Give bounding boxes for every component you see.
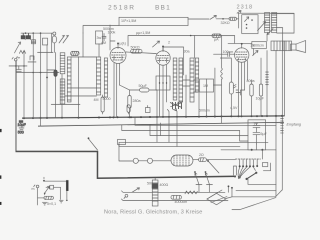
zigzag contact	[19, 50, 25, 53]
svg-text:100k: 100k	[108, 30, 116, 34]
junction dots input	[15, 32, 56, 73]
terminal dot and tick	[43, 180, 45, 182]
coil rung wires	[51, 57, 96, 105]
dropper resistor R11 hatched right	[281, 41, 284, 190]
electrolytic cap C8 left	[17, 120, 26, 134]
resistor R13 dark body top	[152, 183, 158, 188]
svg-text:800cm: 800cm	[253, 43, 264, 47]
chassis left border wire	[15, 61, 17, 151]
svg-text:4,5V: 4,5V	[230, 106, 238, 110]
svg-text:500cm: 500cm	[103, 27, 114, 31]
rotary switch fan wires	[238, 167, 250, 178]
antenna jack thick bar	[66, 180, 68, 191]
trimmer box	[43, 38, 48, 45]
wire vertical x47	[46, 45, 48, 118]
rotary wiper arm	[247, 173, 257, 179]
wire vertical x33	[32, 33, 34, 118]
heater wire 2	[173, 109, 177, 147]
svg-text:6µF: 6µF	[260, 132, 267, 136]
capacitor C6 100cm	[214, 52, 235, 57]
capacitor box 800cm	[252, 42, 267, 49]
resistor R13 400ohm hatched body	[152, 178, 158, 206]
wire vertical x24	[23, 52, 25, 118]
ballast tube U1 (Urdox)	[171, 155, 193, 166]
small box right of bank	[262, 163, 267, 167]
switch bank contacts	[240, 160, 254, 166]
svg-text:500cm: 500cm	[199, 109, 210, 113]
node grid top	[237, 13, 239, 28]
output transformer T1 primary	[265, 13, 270, 33]
IF coil stack L7	[179, 58, 183, 102]
svg-text:2518R: 2518R	[108, 4, 136, 11]
grid cap dot V1	[117, 42, 119, 44]
wire vertical x51	[51, 33, 53, 52]
switch arm at transformer	[258, 22, 266, 31]
mains terminal circle	[125, 194, 128, 197]
heater wire 1	[167, 109, 169, 142]
dial lamp wire	[119, 144, 133, 161]
svg-text:BB1: BB1	[155, 4, 171, 11]
small box on bus	[145, 105, 150, 112]
V2 grid cap wire	[163, 47, 184, 75]
coupling wire V1-V2	[126, 52, 156, 54]
resistor R8 on V3 cathode	[250, 80, 253, 116]
bottom left subcircuit wire	[44, 180, 67, 182]
svg-text:µA: µA	[214, 38, 219, 42]
svg-text:30a: 30a	[184, 49, 190, 53]
main ground bus wire A	[22, 116, 285, 119]
left terminal circle	[36, 185, 39, 188]
svg-text:+µµ: +µµ	[252, 121, 258, 125]
scan artifact marks left edge	[0, 129, 2, 205]
svg-text:5×0,1: 5×0,1	[47, 202, 56, 206]
B+ distribution wire 4	[156, 117, 158, 142]
capacitor C2b	[16, 66, 21, 71]
coil L1 hatched	[60, 53, 65, 74]
contact stem extra	[256, 160, 258, 166]
capacitor C5 50uF	[129, 88, 157, 117]
wire vertical x78	[77, 57, 79, 118]
resistor R10 hatched	[266, 51, 269, 117]
svg-text:1M: 1M	[203, 84, 208, 88]
mains end contacts	[228, 187, 232, 197]
svg-text:µ(λ): µ(λ)	[120, 41, 126, 45]
svg-text:Empfang: Empfang	[286, 123, 300, 127]
switch bank contact dots	[239, 165, 255, 167]
svg-text:m: m	[31, 187, 34, 191]
capacitor C4	[102, 33, 106, 41]
svg-text:500: 500	[18, 130, 24, 134]
mains wires	[121, 191, 228, 201]
electrolytic box C9/C10	[248, 120, 266, 150]
resistor R4 thin	[101, 95, 104, 114]
grid cap dot V2	[162, 46, 164, 48]
resistor R9	[259, 58, 262, 116]
switch arm transformer	[267, 29, 273, 35]
capacitor C1 dark	[21, 33, 25, 39]
svg-text:5000: 5000	[103, 97, 111, 101]
svg-text:2k: 2k	[251, 44, 255, 48]
tuning coil stack L2	[60, 79, 65, 104]
capacitor C3 small	[28, 56, 36, 62]
svg-text:400Ω: 400Ω	[159, 183, 168, 187]
bottom right wire to diamond	[226, 167, 276, 199]
resistor R1 capsule with terminal circle	[53, 32, 56, 35]
L wire right of bank	[263, 163, 270, 171]
wire loop right of transformer	[272, 14, 294, 34]
svg-text:2Ω: 2Ω	[199, 153, 204, 157]
B+ distribution wire 3	[150, 124, 248, 135]
switch arrow S3	[210, 15, 229, 19]
IF coil stack L6	[173, 58, 177, 100]
screen box 3w	[96, 31, 103, 44]
resistor R5 280 ohm	[119, 85, 131, 117]
trimmer cap hatched	[32, 40, 36, 44]
svg-text:4000cm: 4000cm	[174, 200, 187, 204]
switch arrow	[45, 186, 50, 193]
top right wire to transformer	[237, 10, 294, 13]
wire stubs caps	[25, 39, 30, 40]
small box top left of power section	[117, 139, 125, 144]
tube V1 triode	[110, 44, 126, 117]
wire from transformer down	[266, 35, 268, 42]
wire between lamps	[138, 160, 171, 162]
grid bias wire y25	[83, 25, 119, 33]
branch wire from 2A junction	[208, 161, 219, 173]
plate wire y35	[128, 35, 235, 46]
node stub	[159, 123, 161, 136]
wire vertical x40	[39, 33, 41, 126]
svg-text:800a: 800a	[247, 79, 255, 83]
svg-text:Nora, Riessl G. Gleichstrom, 3: Nora, Riessl G. Gleichstrom, 3 Kreise	[104, 209, 203, 215]
ground symbol	[42, 193, 47, 205]
inner wire loop	[277, 28, 283, 42]
vertical wires center	[178, 36, 231, 117]
resistor R6 50K capsule	[131, 49, 142, 53]
antenna arrow	[15, 42, 21, 53]
IF coil stack L8	[190, 58, 199, 102]
resistor R2 capsule hatched	[71, 51, 80, 55]
wire from 800cm box down	[253, 49, 255, 56]
svg-text:280a: 280a	[133, 99, 141, 103]
grid wire y18	[188, 18, 209, 20]
band switch blob	[170, 102, 182, 109]
resistor R15 4000cm capsule	[171, 195, 182, 199]
svg-text:4M: 4M	[94, 98, 99, 102]
svg-text:100cm: 100cm	[223, 50, 234, 54]
switch arrow right	[253, 51, 259, 56]
svg-text:10µF: 10µF	[256, 96, 265, 100]
fuse component	[233, 166, 236, 175]
svg-text:2: 2	[168, 41, 170, 45]
wire from return to rail	[261, 150, 263, 159]
tuning coil stack L3	[67, 57, 71, 102]
capacitor C9	[253, 123, 260, 132]
switch arrow in box	[245, 17, 249, 22]
wire left horizontal	[9, 66, 59, 73]
resistor R3 dark capsule	[54, 70, 57, 77]
wire diagonal to chassis step	[88, 139, 97, 150]
svg-text:2318: 2318	[237, 5, 254, 11]
tube V3 output pentode	[234, 44, 248, 116]
wire	[47, 52, 56, 117]
input top wire	[21, 32, 52, 34]
svg-text:µµ×1,5M: µµ×1,5M	[136, 31, 150, 35]
voltage selector arrows	[195, 173, 213, 193]
grid resistor box	[119, 17, 188, 25]
capacitor box 1M	[200, 79, 214, 92]
svg-text:50µF: 50µF	[139, 84, 148, 88]
tube V2 triode	[156, 47, 170, 117]
svg-text:3w: 3w	[97, 36, 102, 40]
wire mid left	[38, 51, 54, 53]
return wire y150	[221, 149, 276, 151]
svg-text:50KΩ: 50KΩ	[131, 45, 140, 49]
switch contacts S2	[59, 35, 69, 43]
capacitor C2 dark	[26, 33, 30, 39]
screen box V2	[156, 76, 170, 90]
speaker coupling box	[271, 41, 292, 51]
detector box top right	[242, 15, 258, 34]
resistor on plate wire capsule	[212, 34, 221, 37]
power section box top lines	[119, 142, 268, 146]
tuning coil stack L4	[97, 57, 101, 95]
svg-text:4M: 4M	[101, 41, 106, 45]
capacitor C11	[46, 186, 50, 188]
antenna input terminal circles	[12, 57, 20, 61]
wire verticals center-left	[83, 25, 115, 57]
right bus verticals	[276, 41, 285, 196]
output transformer T1 secondary	[272, 13, 277, 33]
top wire above V3	[228, 36, 252, 44]
svg-text:10³×1,5M: 10³×1,5M	[121, 19, 136, 23]
zigzag resistor R14	[185, 191, 197, 194]
resistor capsule R17	[229, 82, 233, 94]
junction dot plate wire	[190, 35, 192, 37]
small capsule on bus left	[127, 105, 130, 114]
switch bank dashed rail	[235, 158, 260, 160]
resistor R16 capsule	[38, 196, 54, 199]
switch arrow	[153, 41, 160, 47]
resistor R12 2A	[193, 158, 236, 162]
wavy resistance wire	[221, 36, 223, 123]
svg-text:32KΩ: 32KΩ	[221, 21, 230, 25]
capacitor C7	[236, 90, 245, 95]
bottom right diagonal long	[232, 190, 282, 210]
bottom right horizontals	[236, 179, 276, 191]
rung wires mid	[183, 80, 198, 92]
svg-text:10µF: 10µF	[17, 123, 26, 127]
dial lamp 2	[147, 158, 152, 163]
main bus wire B	[38, 122, 284, 126]
dial lamp 1	[133, 158, 138, 163]
svg-text:500: 500	[147, 181, 153, 185]
speaker LS	[291, 41, 306, 53]
mains plug diamond	[207, 190, 227, 205]
mains switch arrow	[132, 188, 140, 193]
contact dots in box	[246, 19, 253, 29]
chassis bottom bus wire (stepped)	[15, 151, 236, 178]
B+ distribution wire 2	[135, 117, 276, 125]
wire vertical x62	[61, 74, 63, 118]
junction dots right	[275, 115, 283, 117]
wiper arrowhead	[238, 176, 240, 178]
capacitor C10	[253, 133, 260, 144]
tuning coil stack L5	[104, 58, 107, 97]
junction dots on bus A	[23, 115, 283, 120]
B+ distribution wire 1	[122, 125, 248, 141]
ground right marks	[59, 200, 63, 203]
resistor R7 32K capsule	[229, 17, 237, 20]
